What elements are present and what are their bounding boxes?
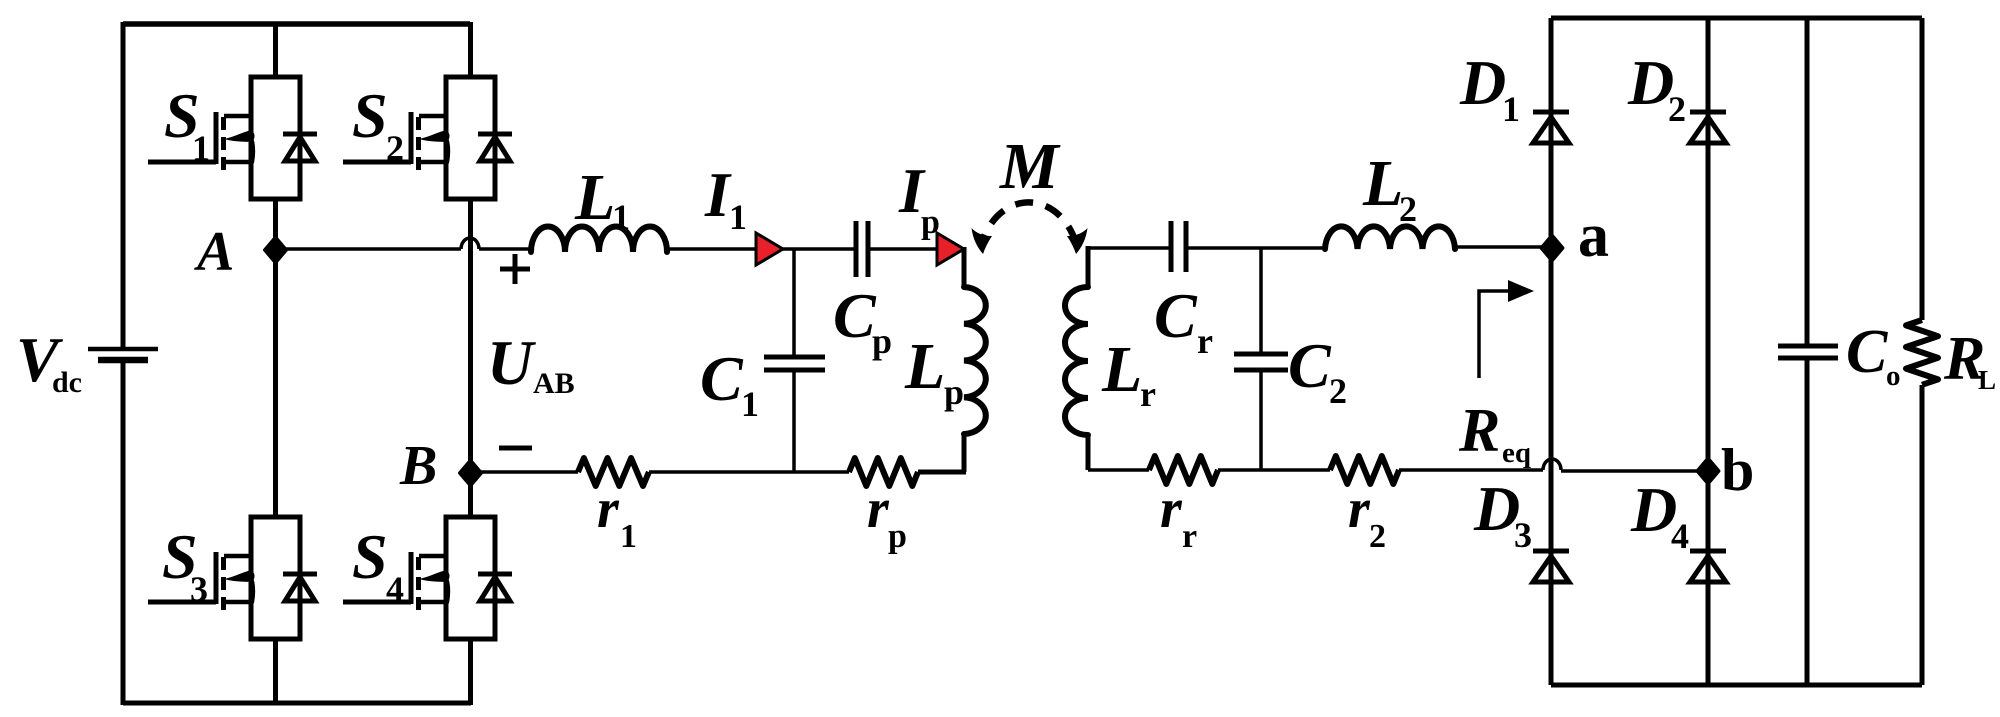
svg-text:a: a: [1578, 202, 1609, 270]
svg-text:2: 2: [1668, 89, 1686, 129]
svg-text:r: r: [1182, 518, 1197, 555]
wire L1 to I1 arrow: [668, 247, 783, 251]
svg-text:1: 1: [729, 197, 747, 237]
svg-text:3: 3: [190, 569, 208, 609]
wire r2 to hop: [1399, 468, 1543, 472]
svg-text:L: L: [1362, 147, 1403, 220]
inductor Lr: [1065, 287, 1088, 435]
svg-text:r: r: [1348, 478, 1371, 540]
current arrow I1: [756, 233, 783, 265]
coupling dashed arc: [981, 202, 1077, 246]
transistor S4: [343, 517, 512, 639]
svg-text:A: A: [194, 221, 234, 283]
svg-text:r: r: [597, 478, 620, 540]
svg-text:eq: eq: [1502, 437, 1531, 469]
svg-text:4: 4: [386, 569, 404, 609]
svg-text:R: R: [1458, 397, 1500, 465]
diode D2: [1690, 112, 1726, 143]
wire hop to L1: [479, 247, 533, 251]
svg-text:2: 2: [1399, 189, 1417, 229]
capacitor C1: [764, 355, 825, 360]
svg-text:2: 2: [386, 128, 404, 168]
resistor r1: [578, 458, 649, 486]
svg-text:p: p: [944, 372, 964, 412]
svg-text:r: r: [1160, 478, 1183, 540]
arrowhead left of M arc: [972, 228, 993, 254]
wire S1 source stub: [273, 198, 278, 252]
svg-text:L: L: [904, 330, 945, 403]
inductor L1: [531, 227, 667, 253]
svg-text:4: 4: [1671, 516, 1689, 556]
wire battery bottom branch: [121, 361, 126, 705]
capacitor Cp: [854, 221, 859, 277]
wire node B to r1: [471, 470, 578, 474]
wire Cr to L2: [1186, 246, 1325, 250]
svg-text:2: 2: [1369, 518, 1386, 555]
wire bottom-right rail: [1551, 683, 1922, 688]
node A: [265, 237, 287, 263]
svg-text:r: r: [1140, 374, 1156, 414]
wire r1 to rp: [649, 470, 849, 474]
svg-text:C: C: [1154, 280, 1198, 351]
wire S1 drain stub: [273, 22, 278, 78]
node a: [1541, 235, 1563, 261]
wire S2 drain stub: [468, 22, 473, 78]
svg-text:1: 1: [1502, 89, 1520, 129]
resistor RL branch: [1920, 18, 1925, 320]
svg-text:C: C: [1288, 330, 1332, 401]
svg-text:r: r: [867, 478, 890, 540]
arrow Req: [1479, 291, 1510, 378]
svg-text:C: C: [700, 343, 744, 414]
wire arrow to Cp: [783, 247, 856, 251]
svg-text:L: L: [1101, 333, 1142, 406]
wire S4 source stub: [468, 638, 473, 705]
current arrow Ip: [937, 233, 964, 265]
wire node A to hop: [275, 247, 461, 251]
transistor S3: [148, 517, 317, 639]
wire rp to Lp: [918, 470, 966, 475]
svg-text:r: r: [1197, 321, 1213, 361]
svg-text:1: 1: [612, 197, 630, 237]
wire rr to r2: [1218, 468, 1330, 472]
svg-text:B: B: [399, 435, 437, 497]
diode D4: [1690, 551, 1726, 582]
svg-text:S: S: [352, 521, 388, 592]
wire S3 source stub: [273, 638, 278, 705]
label minus: [499, 446, 532, 451]
svg-text:M: M: [999, 130, 1061, 203]
wire Lr top corner: [1086, 246, 1091, 287]
resistor rr: [1149, 456, 1218, 484]
node B: [460, 460, 482, 486]
svg-text:C: C: [833, 280, 877, 351]
wire node A to S3 drain: [273, 248, 278, 518]
wire hop to node b: [1561, 469, 1708, 473]
svg-text:p: p: [888, 518, 907, 555]
wire Ip tip down to coil: [962, 247, 967, 287]
svg-text:1: 1: [620, 518, 637, 555]
svg-text:C: C: [1846, 318, 1888, 386]
node b: [1697, 458, 1719, 484]
wire hop over rectifier left leg: [1543, 459, 1561, 470]
svg-text:dc: dc: [52, 366, 82, 399]
svg-text:2: 2: [1329, 371, 1347, 411]
inductor Lp: [964, 287, 986, 434]
wire top-left rail: [123, 21, 470, 27]
wire battery top branch: [121, 22, 126, 347]
wire L2 to node a: [1455, 245, 1552, 249]
svg-text:D: D: [1459, 47, 1506, 118]
wire top-right rail: [1551, 16, 1922, 21]
arrowhead right of M arc: [1067, 228, 1088, 254]
wire node B to S4 drain: [468, 471, 473, 518]
wire Lp bottom: [962, 434, 967, 472]
wire S2 source to node B: [468, 198, 473, 475]
diode D3: [1533, 551, 1569, 582]
svg-text:L: L: [1978, 365, 1996, 395]
inductor L2: [1325, 226, 1455, 249]
transistor S2: [343, 77, 512, 199]
wire rectifier right leg: [1706, 18, 1711, 685]
label +: [500, 254, 530, 284]
diode D1: [1533, 112, 1569, 143]
svg-text:1: 1: [192, 128, 210, 168]
wire Lr bottom: [1086, 435, 1091, 470]
wire Lr bottom to rr: [1088, 468, 1149, 472]
resistor r2: [1330, 456, 1399, 484]
svg-text:b: b: [1721, 437, 1754, 503]
capacitor Cr: [1169, 221, 1174, 272]
wire bottom-left rail: [123, 701, 471, 706]
svg-text:S: S: [352, 80, 388, 151]
capacitor C2 branch: [1259, 248, 1263, 354]
wire C1 top branch: [792, 249, 796, 357]
svg-text:AB: AB: [533, 367, 575, 400]
wire Cp to Ip arrow: [868, 247, 964, 251]
wire rectifier left leg: [1549, 18, 1554, 685]
svg-text:I: I: [704, 159, 732, 230]
svg-text:p: p: [872, 321, 892, 361]
transistor S1: [148, 77, 317, 199]
wire Lr top to Cr: [1088, 246, 1171, 250]
svg-text:3: 3: [1514, 515, 1532, 555]
battery Vdc plates: [88, 347, 158, 352]
svg-text:L: L: [574, 161, 615, 234]
svg-text:o: o: [1886, 360, 1901, 392]
svg-text:1: 1: [741, 384, 759, 424]
capacitor Co branch: [1805, 18, 1810, 346]
resistor rp: [849, 458, 918, 486]
svg-text:U: U: [487, 327, 536, 398]
wire hop over S2 leg: [461, 238, 479, 249]
